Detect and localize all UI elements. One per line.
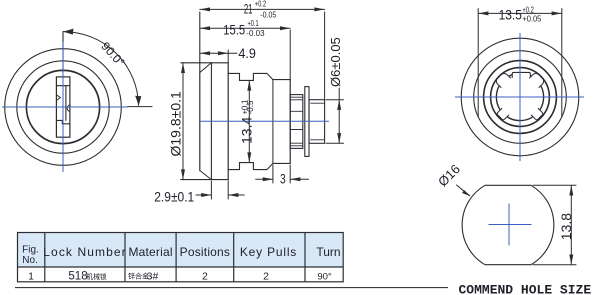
90 degree dimension arc bbox=[64, 32, 139, 106]
hole view: circle with two flats bbox=[462, 185, 554, 264]
right view flat chord right bbox=[561, 77, 563, 116]
blue center lines bbox=[2, 33, 584, 246]
dim Dia6: bottom extension line bbox=[326, 142, 344, 144]
dim 2.9: right extension line bbox=[227, 181, 229, 199]
hole view: Dia16 leader arrow bbox=[462, 190, 470, 196]
dim 13.5: right extension line bbox=[561, 9, 563, 78]
right view tab bump lower-right bbox=[531, 108, 544, 121]
svg-text:15.5: 15.5 bbox=[223, 22, 245, 37]
dim 2.9: dimension line with tails bbox=[196, 194, 211, 196]
dim 3: dimension line tails bbox=[256, 178, 273, 180]
middle view: cylinder B top edge bbox=[273, 79, 290, 81]
middle view: thread block outline bbox=[290, 95, 303, 149]
right view ear bump upper-left bbox=[494, 71, 511, 88]
dim 4.9: arrows bbox=[200, 51, 228, 55]
dim Dia6: dimension line bbox=[338, 88, 340, 143]
middle view: body section A bottom edge bbox=[228, 163, 267, 170]
dim 3: right extension line bbox=[289, 165, 291, 183]
svg-text:Material: Material bbox=[128, 245, 172, 259]
left view inner cylinder circle bbox=[26, 70, 99, 143]
dim 13.5: arrows bbox=[478, 11, 562, 15]
left view vertical centerline bbox=[62, 42, 64, 172]
dim 15.5: right extension line bbox=[289, 30, 291, 80]
middle view: head bottom chamfer bbox=[200, 171, 212, 180]
middle view: cylinder B right face bbox=[289, 80, 291, 164]
middle view: shaft inner top line bbox=[311, 102, 325, 104]
right view nut circle bbox=[484, 61, 557, 134]
middle view: shaft inner bottom line bbox=[311, 139, 325, 141]
key slot top cross line bbox=[56, 85, 70, 87]
svg-text:No.: No. bbox=[22, 255, 38, 266]
key slot outline bbox=[56, 77, 70, 137]
svg-text:2: 2 bbox=[263, 270, 269, 282]
svg-text:-0.05: -0.05 bbox=[260, 10, 276, 20]
right view cylinder circle bbox=[474, 51, 567, 144]
right view top key slot bbox=[512, 72, 531, 78]
right view ear bump upper-right bbox=[529, 71, 546, 88]
90 degree arc arrow bottom bbox=[135, 96, 141, 106]
middle view: head top chamfer bbox=[200, 63, 212, 73]
middle view: cylinder B bottom edge bbox=[273, 162, 290, 164]
dim 4.9: dimension line bbox=[200, 52, 237, 54]
dim Dia19.8: arrows bbox=[181, 63, 185, 180]
dim 21: dimension line bbox=[200, 8, 325, 10]
svg-text:Positions: Positions bbox=[180, 245, 231, 259]
middle view: cylinder B edge line bbox=[272, 80, 274, 164]
middle view: head back face bbox=[227, 63, 229, 180]
dim 2.9: arrows bbox=[201, 193, 238, 197]
middle view: body section A top edge bbox=[228, 73, 267, 80]
table grid bbox=[18, 233, 344, 282]
right view hole circle bbox=[496, 73, 543, 120]
svg-text:+0.2: +0.2 bbox=[255, 1, 267, 9]
middle view centerline bbox=[200, 120, 329, 122]
dim 4.9: right extension line bbox=[227, 50, 229, 63]
right view flat chord left bbox=[477, 77, 479, 116]
svg-text:4.9: 4.9 bbox=[238, 45, 256, 61]
dim Dia6: top extension line bbox=[326, 99, 344, 101]
svg-text:90°: 90° bbox=[317, 271, 332, 282]
key slot inner vertical line bbox=[65, 86, 67, 121]
dim 13.5: left extension line bbox=[477, 9, 479, 78]
dim 13.8: bottom extension line bbox=[533, 264, 576, 266]
90 degree dimension: vertical extension line bbox=[62, 32, 64, 73]
bottom rule line bbox=[15, 287, 448, 289]
middle view: head bottom edge with extension bbox=[181, 179, 228, 181]
svg-text:13.8: 13.8 bbox=[558, 213, 574, 240]
svg-text:Fig.: Fig. bbox=[22, 244, 39, 255]
svg-text:13.5: 13.5 bbox=[499, 7, 522, 23]
dim 15.5: arrows bbox=[200, 26, 290, 30]
dim 3: arrows bbox=[263, 177, 301, 181]
svg-text:2: 2 bbox=[202, 270, 208, 282]
svg-text:+0.1: +0.1 bbox=[248, 20, 259, 28]
left view middle circle bbox=[17, 61, 109, 153]
dim 21: left extension line bbox=[199, 12, 201, 73]
dim 13.8: dimension line bbox=[570, 185, 572, 264]
middle view: shaft outline bbox=[309, 100, 325, 144]
dimension texts bbox=[98, 1, 574, 240]
hole view horizontal centerline bbox=[489, 224, 532, 226]
hole view vertical centerline bbox=[508, 204, 510, 246]
dim 3: left extension line bbox=[272, 165, 274, 183]
middle view: head front face bbox=[199, 73, 201, 171]
90 degree arc arrow top bbox=[63, 29, 73, 35]
middle view: bottom chamfer to cylinder B bbox=[267, 163, 273, 169]
svg-text:Lock Number: Lock Number bbox=[43, 245, 126, 259]
svg-text:3: 3 bbox=[280, 171, 286, 187]
table bbox=[18, 233, 344, 283]
svg-text:3#: 3# bbox=[147, 271, 159, 283]
svg-text:Turn: Turn bbox=[316, 245, 340, 259]
dim 21: right extension line bbox=[324, 12, 326, 100]
middle view: Dia19.8 top extension line and head top edge bbox=[181, 62, 228, 64]
svg-text:21: 21 bbox=[244, 2, 253, 17]
dim 15.5: dimension line bbox=[200, 27, 290, 29]
middle view: head rim edge line bbox=[210, 63, 212, 180]
svg-text:Ø19.8±0.1: Ø19.8±0.1 bbox=[168, 91, 184, 156]
dim 13.8: arrows bbox=[569, 185, 573, 264]
svg-text:2.9±0.1: 2.9±0.1 bbox=[154, 189, 194, 205]
table header background bbox=[18, 233, 344, 268]
right view tab bump lower-left bbox=[496, 108, 509, 121]
dim 2.9: left extension line bbox=[210, 181, 212, 199]
dim 13.5: dimension line bbox=[478, 12, 562, 14]
svg-text:518: 518 bbox=[68, 271, 87, 283]
dim 13.4: arrows bbox=[247, 80, 251, 162]
svg-text:13.4: 13.4 bbox=[238, 117, 254, 144]
svg-text:1: 1 bbox=[28, 270, 34, 282]
left view horizontal centerline bbox=[2, 106, 128, 108]
svg-text:-0.5: -0.5 bbox=[246, 100, 255, 115]
90 degree dimension: horizontal extension line bbox=[128, 106, 153, 108]
dim Dia6: arrows bbox=[337, 100, 341, 144]
svg-text:Key Pulls: Key Pulls bbox=[240, 245, 297, 259]
right view vertical centerline bbox=[519, 33, 521, 161]
svg-text:-0.03: -0.03 bbox=[246, 29, 265, 38]
middle view: washer plate bbox=[305, 87, 309, 157]
svg-text:+0.2: +0.2 bbox=[522, 7, 534, 15]
svg-text:COMMEND HOLE SIZE: COMMEND HOLE SIZE bbox=[459, 283, 592, 295]
key slot right bump bbox=[67, 105, 70, 112]
svg-text:机械锁: 机械锁 bbox=[86, 272, 107, 281]
dim Dia19.8: dimension line bbox=[182, 63, 184, 180]
svg-text:Ø6±0.05: Ø6±0.05 bbox=[328, 37, 343, 87]
dim 13.4: dimension line bbox=[248, 80, 250, 162]
hole view: Dia16 leader line bbox=[457, 185, 470, 196]
right view horizontal centerline bbox=[455, 96, 584, 98]
key slot bottom step bbox=[56, 120, 70, 123]
dim 21: arrows bbox=[200, 7, 325, 11]
left view outer circle (lock head rim) bbox=[5, 49, 122, 166]
right view outer circle bbox=[461, 38, 579, 156]
dim 13.8: top extension line bbox=[533, 184, 576, 186]
key slot left notch bbox=[56, 95, 60, 101]
svg-text:+0.05: +0.05 bbox=[522, 14, 541, 23]
middle view: top chamfer to cylinder B bbox=[267, 73, 273, 79]
middle view: thread crest lines bbox=[290, 97, 303, 146]
right view cam ring bbox=[491, 68, 550, 127]
